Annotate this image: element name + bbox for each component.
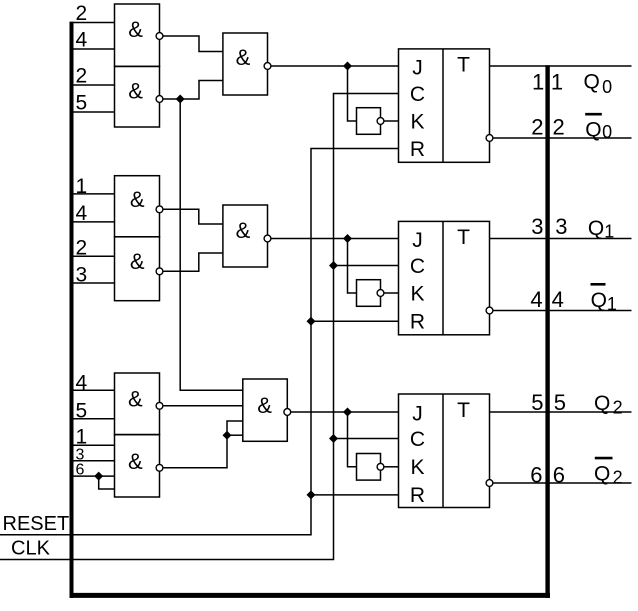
wire CLK to FF3 C [334,438,399,440]
wire N1 to FF1 K [384,120,399,122]
output bubble N3 [377,463,384,470]
wire D2.3 out to FF3 J [291,411,399,413]
wire input pin 3 (group 3) [74,460,115,462]
output bubble U2 Qbar [486,307,493,314]
svg-text:K: K [410,110,424,133]
svg-text:T: T [457,54,470,77]
inverter N1 [357,108,381,135]
output bubble U3 Qbar [486,480,493,487]
output bubble D2.1 [264,63,271,70]
svg-text:&: & [236,218,251,243]
svg-text:2: 2 [531,115,543,140]
svg-text:5: 5 [76,91,88,114]
output bubble D1.2 [156,96,163,103]
wire input pin 1 (group 3) [74,444,115,446]
junction J3 [343,408,352,417]
AND gate D1.2 [115,66,160,127]
overline Q0bar [585,113,602,116]
wire input pin 2 (group 2) [74,255,115,257]
svg-text:T: T [457,399,470,422]
flip-flop U2 [399,221,490,334]
junction C2 [329,261,338,270]
wire node A down to D2.3 input [180,99,243,390]
svg-text:T: T [457,226,470,249]
junction node A [176,95,185,104]
junction pin6 loop [94,472,103,481]
AND gate D1.1 [115,4,160,66]
wire D1.4 out to D2.2 [163,253,223,271]
wire input pin 6 (group 3) [74,475,115,477]
junction J2 [343,234,352,243]
wire input pin 5 (group 3) [74,418,115,420]
svg-text:2: 2 [76,64,88,87]
svg-text:2: 2 [76,2,88,25]
flip-flop U2 divider [442,221,444,334]
wire CLK net [0,94,399,560]
flip-flop U1 divider [442,49,444,162]
junction R3 [307,490,316,499]
AND gate D1.6 [115,435,160,497]
wire J2 down to inverter N2 [348,239,357,294]
svg-text:RESET: RESET [3,513,70,535]
wire feedback branch stub [227,434,243,436]
svg-text:0: 0 [602,77,612,97]
wire J3 down to inverter N3 [348,412,357,467]
svg-text:6: 6 [530,463,542,488]
wire Q0bar output [493,137,632,139]
wire input pin 5 (group 1) [74,111,115,113]
wire D1.2 out to D2.1 [163,81,223,100]
svg-text:4: 4 [76,28,88,51]
NAND gate D2.3 [243,379,287,441]
svg-text:1: 1 [76,175,88,198]
svg-text:2: 2 [76,237,88,260]
overline Q1bar [591,283,606,286]
output bubble D1.3 [156,206,163,213]
svg-text:J: J [412,402,423,425]
wire N2 to FF2 K [384,292,399,294]
AND gate D1.3 [115,176,160,237]
left input bus (thick vertical line) [70,22,74,598]
wire RESET to FF3 R [311,494,399,496]
wire Q0 output [490,65,632,67]
svg-text:5: 5 [554,390,566,415]
wire J1 down to inverter N1 [348,66,357,121]
wire Q2 output [490,411,632,413]
svg-text:4: 4 [76,202,88,225]
AND gate D1.4 [115,237,160,301]
wire RESET to FF2 R [311,320,399,322]
output bubble U1 Qbar [486,135,493,142]
wire input pin 2 (group 1) [74,22,115,24]
svg-text:0: 0 [602,122,612,142]
wire D1.6 out to D2.3 [163,421,243,468]
svg-text:2: 2 [553,115,565,140]
bottom border (thick line) [70,593,551,598]
svg-text:6: 6 [76,461,85,478]
svg-text:J: J [412,56,423,79]
flip-flop U1 [399,49,490,162]
svg-text:2: 2 [613,467,623,487]
overline Q2bar [595,457,613,460]
svg-text:Q: Q [588,217,604,240]
svg-text:&: & [130,249,145,274]
svg-text:Q: Q [584,71,600,94]
svg-text:J: J [412,229,423,252]
wire pin6 loop to D1.6 lower input [99,476,115,489]
svg-text:Q: Q [591,289,607,312]
junction feedback branch [223,431,232,440]
svg-text:&: & [257,393,272,418]
svg-text:Q: Q [594,463,610,486]
junction C3 [329,434,338,443]
wire Q1bar output [493,310,632,312]
output bubble D1.1 [156,33,163,40]
svg-text:C: C [410,255,425,278]
svg-text:R: R [410,138,425,161]
svg-text:&: & [128,449,143,474]
wire D1.5 out to D2.3 [163,405,243,407]
flip-flop U3 [399,394,490,508]
svg-text:&: & [128,387,143,412]
svg-text:&: & [128,17,143,42]
svg-text:1: 1 [532,69,544,94]
svg-text:2: 2 [613,397,623,417]
inverter N3 [357,454,381,481]
svg-text:3: 3 [76,264,88,287]
output bubble D1.4 [156,268,163,275]
svg-text:C: C [410,428,425,451]
svg-text:&: & [236,45,251,70]
svg-text:3: 3 [555,214,567,239]
NAND gate D2.2 [223,205,268,267]
junction R2 [307,317,316,326]
junction J1 [343,62,352,71]
svg-text:Q: Q [585,118,601,141]
svg-text:4: 4 [552,287,564,312]
NAND gate D2.1 [223,33,268,95]
svg-text:4: 4 [530,287,542,312]
svg-text:Q: Q [594,392,610,415]
wire input pin 4 (group 2) [74,221,115,223]
svg-text:&: & [128,79,143,104]
svg-text:5: 5 [76,399,88,422]
svg-text:4: 4 [76,371,88,394]
wire D1.1 out to D2.1 [163,36,223,52]
svg-text:K: K [410,282,424,305]
wire D2.1 out to FF1 J [271,65,399,67]
wire D1.3 out to D2.2 [163,209,223,224]
output bubble D2.2 [264,235,271,242]
output bubble D1.6 [156,464,163,471]
wire D2.2 out to FF2 J [271,238,399,240]
svg-text:1: 1 [76,425,88,448]
svg-text:CLK: CLK [11,537,51,559]
wire Q2bar output [493,482,632,484]
output bubble N2 [377,290,384,297]
wire CLK to FF2 C [334,265,399,267]
flip-flop U3 divider [442,394,444,508]
svg-text:R: R [410,484,425,507]
output bubble D2.3 [284,409,291,416]
wire RESET net [0,149,399,535]
AND gate D1.5 [115,373,160,435]
svg-text:1: 1 [604,222,614,242]
wire N3 to FF3 K [384,466,399,468]
output bubble D1.5 [156,402,163,409]
svg-text:1: 1 [551,69,563,94]
svg-text:6: 6 [553,463,565,488]
inverter N2 [357,280,381,307]
svg-text:C: C [410,83,425,106]
wire input pin 4 (group 1) [74,48,115,50]
svg-text:3: 3 [531,214,543,239]
wire input pin 1 (group 2) [74,193,115,195]
svg-text:R: R [410,311,425,334]
svg-text:1: 1 [607,294,617,314]
output bubble N1 [377,118,384,125]
wire input pin 4 (group 3) [74,389,115,391]
wire input pin 3 (group 2) [74,282,115,284]
wire input pin 2b (group 1) [74,84,115,86]
wire Q1 output [490,238,632,240]
right output bus (thick vertical line) [545,65,549,598]
svg-text:5: 5 [531,390,543,415]
svg-text:K: K [410,456,424,479]
svg-text:&: & [130,187,145,212]
